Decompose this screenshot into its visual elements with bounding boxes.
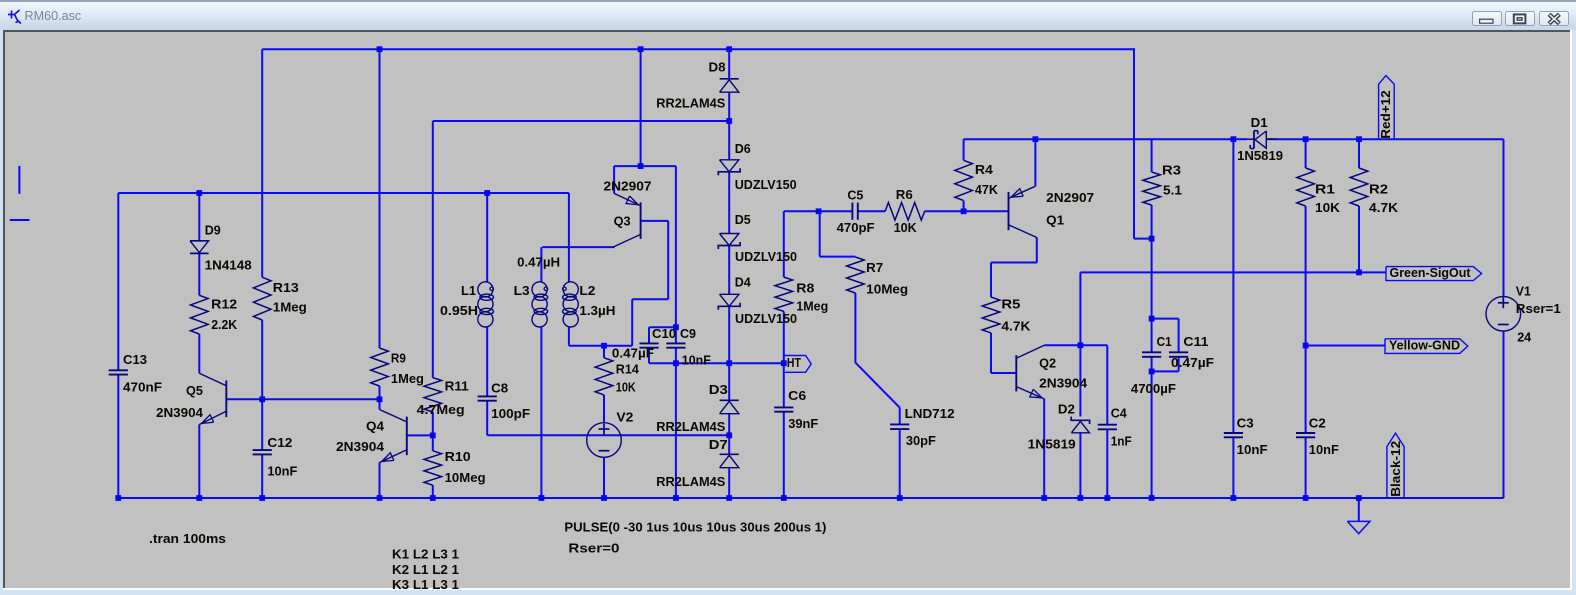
svg-text:4.7K: 4.7K	[1369, 200, 1399, 215]
svg-text:D1: D1	[1251, 115, 1268, 130]
svg-text:1N4148: 1N4148	[205, 257, 252, 272]
svg-text:R14: R14	[616, 361, 640, 376]
svg-text:L2: L2	[579, 283, 595, 298]
svg-text:R10: R10	[445, 449, 471, 464]
svg-text:10nF: 10nF	[682, 352, 711, 367]
svg-text:0.95H: 0.95H	[440, 303, 478, 318]
svg-text:10K: 10K	[616, 379, 637, 394]
svg-text:2N3904: 2N3904	[1039, 375, 1088, 390]
svg-text:1nF: 1nF	[1111, 433, 1132, 448]
svg-text:D4: D4	[735, 274, 752, 289]
svg-text:R3: R3	[1162, 162, 1181, 177]
svg-text:C1: C1	[1157, 334, 1172, 349]
svg-text:100pF: 100pF	[491, 406, 530, 421]
svg-text:R13: R13	[273, 280, 299, 295]
svg-text:5.1: 5.1	[1163, 182, 1182, 197]
svg-text:RR2LAM4S: RR2LAM4S	[656, 419, 725, 434]
svg-text:R7: R7	[866, 260, 883, 275]
svg-text:R9: R9	[391, 350, 406, 365]
svg-text:C8: C8	[491, 380, 508, 395]
svg-text:D7: D7	[709, 437, 728, 452]
svg-text:39nF: 39nF	[788, 416, 818, 431]
svg-text:K1 L2 L3 1: K1 L2 L3 1	[392, 546, 459, 561]
svg-text:10nF: 10nF	[267, 463, 297, 478]
svg-text:K2 L1 L2 1: K2 L1 L2 1	[392, 562, 459, 577]
svg-text:C9: C9	[680, 326, 696, 341]
svg-text:.tran 100ms: .tran 100ms	[149, 531, 226, 546]
svg-text:2N3904: 2N3904	[336, 439, 385, 454]
svg-text:4.7K: 4.7K	[1001, 318, 1031, 333]
svg-text:C6: C6	[788, 388, 806, 403]
svg-text:K3 L1 L3 1: K3 L1 L3 1	[392, 577, 459, 592]
svg-text:Rser=1: Rser=1	[1516, 301, 1561, 316]
svg-text:10K: 10K	[894, 220, 918, 235]
svg-text:D9: D9	[205, 222, 221, 237]
svg-text:2.2K: 2.2K	[211, 317, 238, 332]
svg-text:D6: D6	[735, 141, 751, 156]
svg-text:UDZLV150: UDZLV150	[735, 177, 797, 192]
svg-text:C3: C3	[1237, 415, 1254, 430]
svg-text:10nF: 10nF	[1237, 442, 1268, 457]
svg-text:1N5819: 1N5819	[1028, 436, 1076, 451]
svg-text:R1: R1	[1315, 181, 1335, 196]
svg-text:UDZLV150: UDZLV150	[735, 311, 797, 326]
svg-text:Rser=0: Rser=0	[568, 540, 619, 555]
svg-text:R4: R4	[975, 162, 994, 177]
svg-text:4700µF: 4700µF	[1131, 381, 1176, 396]
svg-text:L3: L3	[514, 283, 530, 298]
svg-text:C5: C5	[847, 188, 863, 203]
svg-text:R12: R12	[211, 296, 237, 311]
svg-text:Red+12: Red+12	[1378, 90, 1393, 139]
svg-text:1.3µH: 1.3µH	[579, 303, 615, 318]
svg-text:2N2907: 2N2907	[1046, 190, 1094, 205]
svg-text:LND712: LND712	[905, 406, 955, 421]
svg-text:R5: R5	[1001, 297, 1020, 312]
svg-text:470pF: 470pF	[837, 220, 875, 235]
svg-text:HT: HT	[787, 355, 801, 370]
svg-text:PULSE(0 -30 1us 10us 10us 30us: PULSE(0 -30 1us 10us 10us 30us 200us 1)	[564, 519, 826, 534]
svg-text:24: 24	[1517, 330, 1532, 345]
svg-text:10K: 10K	[1315, 200, 1341, 215]
svg-text:RR2LAM4S: RR2LAM4S	[656, 96, 725, 111]
svg-text:Q4: Q4	[366, 418, 385, 433]
svg-text:0.47µF: 0.47µF	[1171, 355, 1214, 370]
svg-text:C12: C12	[267, 435, 292, 450]
svg-text:2N3904: 2N3904	[156, 405, 204, 420]
svg-text:V1: V1	[1516, 283, 1531, 298]
svg-text:RR2LAM4S: RR2LAM4S	[656, 474, 725, 489]
svg-text:D3: D3	[709, 382, 728, 397]
svg-text:D2: D2	[1058, 402, 1075, 417]
svg-text:D8: D8	[709, 59, 726, 74]
svg-text:R8: R8	[796, 280, 814, 295]
svg-text:1N5819: 1N5819	[1237, 148, 1283, 163]
svg-text:Green-SigOut: Green-SigOut	[1390, 265, 1472, 280]
svg-text:Yellow-GND: Yellow-GND	[1389, 337, 1460, 352]
svg-text:2N2907: 2N2907	[604, 178, 652, 193]
svg-text:10Meg: 10Meg	[445, 470, 486, 485]
svg-text:V2: V2	[616, 409, 633, 424]
svg-text:R6: R6	[896, 187, 913, 202]
svg-text:470nF: 470nF	[123, 379, 162, 394]
svg-text:D5: D5	[735, 212, 751, 227]
svg-text:Q1: Q1	[1046, 212, 1064, 227]
svg-text:R11: R11	[445, 378, 469, 393]
svg-text:UDZLV150: UDZLV150	[735, 249, 797, 264]
svg-text:Q2: Q2	[1039, 355, 1056, 370]
svg-text:L1: L1	[461, 283, 476, 298]
svg-text:C11: C11	[1183, 334, 1208, 349]
svg-text:1Meg: 1Meg	[796, 299, 828, 314]
svg-text:R2: R2	[1369, 181, 1388, 196]
svg-text:4.7Meg: 4.7Meg	[417, 402, 465, 417]
svg-text:C10: C10	[652, 326, 676, 341]
svg-text:10nF: 10nF	[1309, 442, 1339, 457]
svg-text:C4: C4	[1111, 406, 1128, 421]
svg-text:C2: C2	[1309, 415, 1326, 430]
svg-text:0.47µH: 0.47µH	[517, 254, 560, 269]
svg-text:Q5: Q5	[186, 383, 203, 398]
svg-text:Black-12: Black-12	[1388, 441, 1403, 497]
svg-text:10Meg: 10Meg	[866, 281, 908, 296]
svg-text:Q3: Q3	[614, 214, 631, 229]
svg-text:1Meg: 1Meg	[391, 371, 424, 386]
svg-text:C13: C13	[123, 352, 147, 367]
svg-text:30pF: 30pF	[906, 433, 936, 448]
svg-text:1Meg: 1Meg	[273, 299, 307, 314]
svg-text:0.47µF: 0.47µF	[612, 346, 654, 361]
svg-text:47K: 47K	[975, 182, 999, 197]
